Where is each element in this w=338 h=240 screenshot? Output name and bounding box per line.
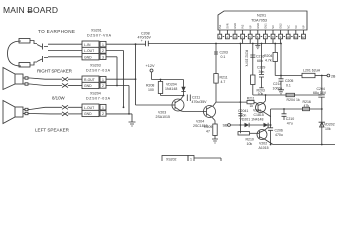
svg-text:V202: V202 [259,142,267,146]
svg-text:GND: GND [84,112,92,116]
svg-text:47: 47 [206,129,210,133]
svg-text:10: 10 [286,35,289,39]
svg-text:+: + [141,39,143,43]
svg-text:11: 11 [294,35,297,39]
svg-text:1: 1 [102,78,104,82]
svg-text:1: 1 [102,106,104,110]
svg-text:68u 16V: 68u 16V [313,91,327,95]
svg-text:0.1: 0.1 [221,55,226,59]
svg-text:1N4148: 1N4148 [165,87,177,91]
svg-text:47u: 47u [287,122,293,126]
svg-text:4.7k: 4.7k [265,59,272,63]
svg-text:XS204: XS204 [90,92,101,96]
svg-text:DZS07-03A: DZS07-03A [86,69,111,73]
svg-text:C205: C205 [285,79,293,83]
svg-text:2: 2 [227,35,229,39]
svg-text:L-OUT: L-OUT [84,49,94,53]
svg-text:1: 1 [190,158,192,162]
svg-text:1000p: 1000p [273,87,283,91]
svg-text:7: 7 [265,35,267,39]
svg-text:VC: VC [294,25,298,29]
svg-text:100: 100 [148,88,154,92]
svg-text:L-OUT: L-OUT [84,106,94,110]
svg-text:C203: C203 [220,51,228,55]
svg-text:NC: NC [271,25,275,29]
svg-text:47k: 47k [304,104,310,108]
svg-text:IN1: IN1 [218,24,222,29]
svg-text:1: 1 [102,43,104,47]
svg-text:GND: GND [84,84,92,88]
svg-text:SB: SB [223,124,229,128]
svg-text:8/10W: 8/10W [52,96,66,101]
svg-text:GND: GND [84,56,92,60]
svg-text:MAIN BOARD: MAIN BOARD [3,5,58,15]
svg-text:1: 1 [219,35,221,39]
svg-text:NC: NC [286,25,290,29]
svg-text:N201: N201 [257,14,266,18]
svg-text:12: 12 [302,35,305,39]
svg-text:V203: V203 [158,111,166,115]
svg-text:DZS07-03A: DZS07-03A [86,97,111,101]
svg-text:VD204: VD204 [166,83,177,87]
svg-text:2: 2 [102,112,104,116]
svg-text:RIGHT SPEAKER: RIGHT SPEAKER [37,69,73,74]
svg-text:470/16V: 470/16V [138,35,152,39]
svg-text:OU2: OU2 [279,23,283,29]
svg-text:R202 10/7k: R202 10/7k [245,50,249,67]
svg-text:2SA1015: 2SA1015 [156,115,170,119]
svg-text:R211: R211 [220,76,228,80]
svg-text:C206: C206 [275,129,283,133]
svg-text:2: 2 [102,84,104,88]
svg-text:9: 9 [280,35,282,39]
svg-text:470u: 470u [275,133,283,137]
svg-text:3: 3 [234,35,236,39]
svg-text:TDA7053: TDA7053 [251,19,267,23]
svg-text:GND: GND [233,23,237,29]
svg-text:R-OUT: R-OUT [84,78,95,82]
svg-text:VD202: VD202 [324,123,335,127]
svg-text:SVR: SVR [226,23,230,28]
svg-text:XS201: XS201 [91,29,102,33]
svg-text:C210: C210 [286,117,294,121]
svg-text:10k: 10k [325,127,331,131]
svg-text:+12V: +12V [146,64,155,68]
svg-text:1k: 1k [296,98,300,102]
svg-text:10k: 10k [247,142,253,146]
svg-text:V204: V204 [196,120,204,124]
svg-text:2: 2 [102,49,104,53]
svg-text:XS203: XS203 [90,64,101,68]
svg-text:R210: R210 [246,138,254,142]
svg-text:L-IN: L-IN [84,43,91,47]
svg-text:68n: 68n [257,59,263,63]
svg-text:XS202: XS202 [166,158,177,162]
svg-text:LEFT SPEAKER: LEFT SPEAKER [35,128,70,133]
svg-text:0.1: 0.1 [286,84,291,88]
svg-text:3: 3 [102,56,104,60]
svg-text:R208: R208 [146,84,154,88]
svg-text:VD201 1N4148: VD201 1N4148 [240,117,264,121]
svg-text:8: 8 [272,35,274,39]
svg-text:L201 62uH: L201 62uH [303,69,321,73]
svg-text:OU1: OU1 [264,23,268,29]
svg-text:470u/35V: 470u/35V [192,100,208,104]
svg-text:R204: R204 [264,54,272,58]
svg-text:GND: GND [256,23,260,29]
svg-text:VP: VP [302,25,306,29]
svg-text:TO EARPHONE: TO EARPHONE [38,29,75,34]
svg-text:C211: C211 [192,96,200,100]
svg-text:A1015: A1015 [259,146,269,150]
svg-text:R211: R211 [247,97,255,101]
svg-text:C1815: C1815 [254,113,264,117]
svg-text:IN2: IN2 [241,24,245,29]
svg-text:2B: 2B [331,75,336,79]
svg-text:39n: 39n [259,70,265,74]
svg-text:4: 4 [242,35,244,39]
svg-text:4.7: 4.7 [221,80,226,84]
svg-text:VP: VP [248,25,252,29]
svg-text:5: 5 [249,35,251,39]
svg-text:+: + [183,94,185,98]
svg-text:6: 6 [257,35,259,39]
svg-text:DZS07-V0A: DZS07-V0A [87,34,112,38]
